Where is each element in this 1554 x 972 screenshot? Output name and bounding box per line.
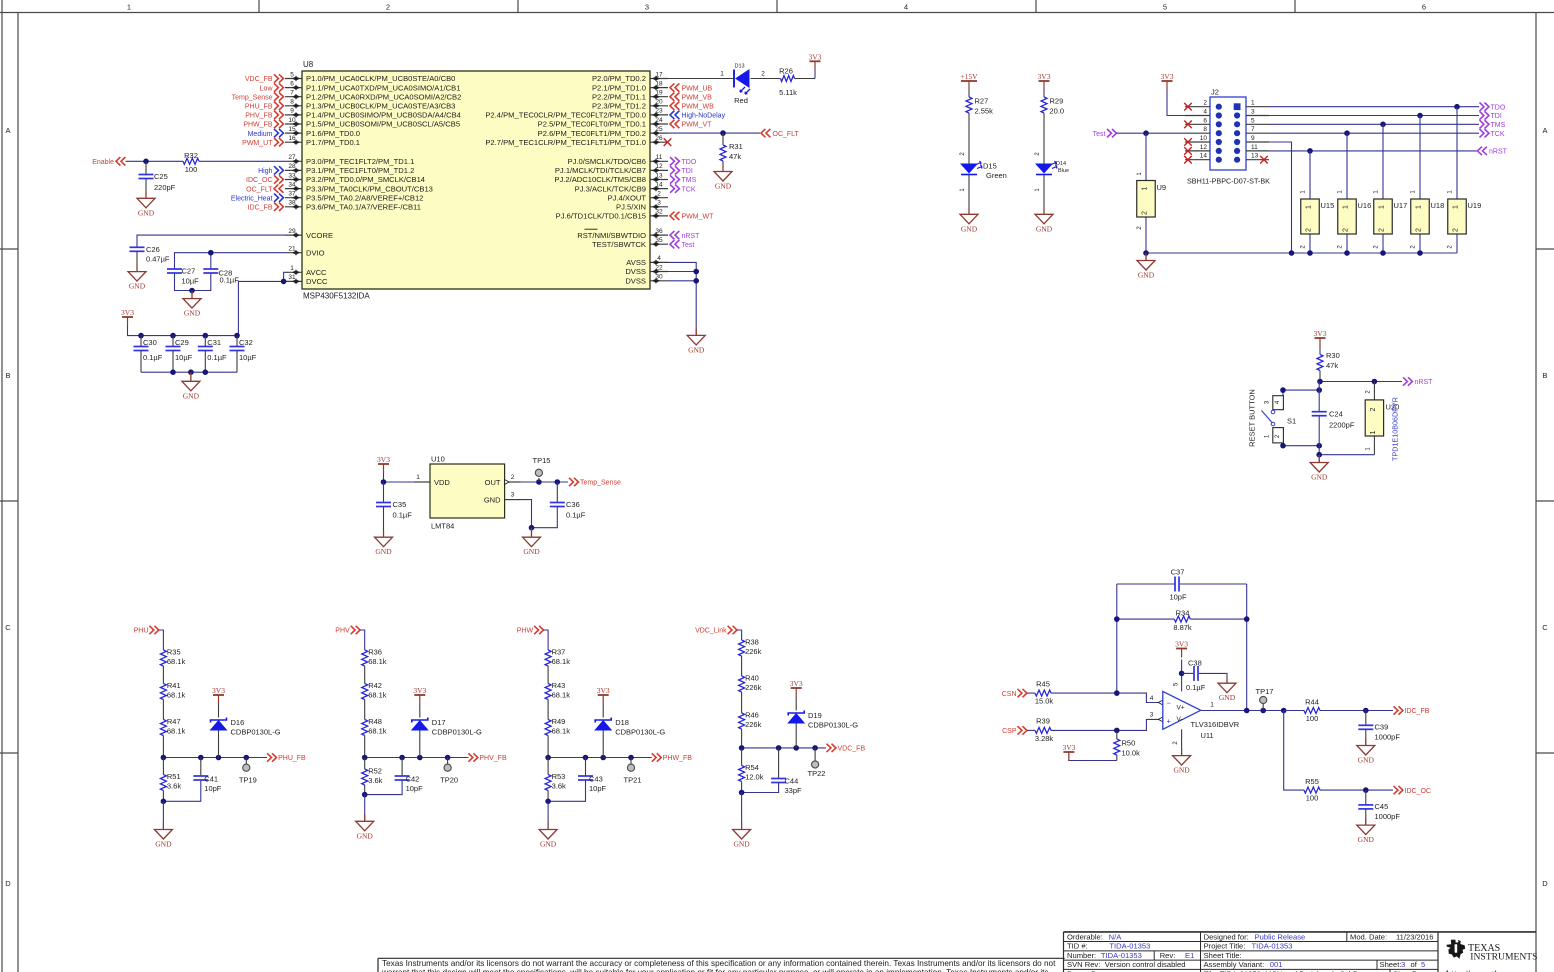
svg-text:10pF: 10pF [204, 784, 222, 793]
svg-text:PHU_FB: PHU_FB [245, 104, 273, 111]
svg-text:PHV_FB: PHV_FB [245, 113, 273, 120]
resistor R36 68.1k [362, 650, 368, 666]
svg-text:R46: R46 [745, 711, 759, 720]
resistor R52 3.6k [364, 758, 366, 770]
wire TMS from J2 pin5 [1269, 123, 1479, 125]
switch S1 lever [1271, 410, 1275, 414]
wire D14 to gnd [1043, 175, 1045, 214]
wire to ground PHV chain [364, 795, 366, 822]
svg-text:R40: R40 [745, 674, 759, 683]
svg-text:U9: U9 [1157, 183, 1167, 192]
wire bottom rail cap bank [141, 371, 237, 373]
svg-text:P1.2/PM_UCA0RXD/PM_UCA0SOMI/A2: P1.2/PM_UCA0RXD/PM_UCA0SOMI/A2/CB2 [306, 92, 461, 101]
svg-text:D19: D19 [808, 711, 822, 720]
wire R55 branch [1284, 711, 1304, 791]
svg-text:13: 13 [1251, 153, 1259, 160]
wire R26 to 3V3 [795, 78, 816, 80]
wire Test to J2 pin8 [1117, 132, 1186, 134]
sheet border frame [1, 0, 3, 972]
junction dots bottom rail [170, 369, 176, 375]
svg-text:1: 1 [1210, 702, 1214, 709]
svg-text:Temp_Sense: Temp_Sense [232, 94, 273, 101]
wire VDC_FB node [742, 747, 826, 749]
test point TP19 [245, 758, 247, 765]
pin 35 U8 TEST/SBWTCK with port Test [650, 243, 668, 245]
svg-text:C29: C29 [175, 338, 189, 347]
resistor R39 3.28k [1027, 729, 1035, 731]
svg-text:17: 17 [655, 71, 663, 78]
svg-text:U11: U11 [1201, 731, 1214, 740]
svg-text:CDBP0130L-G: CDBP0130L-G [808, 720, 858, 729]
ground below D14 [1043, 207, 1045, 214]
svg-text:E1: E1 [1185, 951, 1194, 960]
svg-text:68.1k: 68.1k [167, 690, 186, 699]
svg-text:TPD1E10B06DPYR: TPD1E10B06DPYR [1391, 397, 1400, 461]
svg-text:1: 1 [1416, 205, 1423, 209]
svg-text:OC_FLT: OC_FLT [773, 131, 800, 138]
wire VCORE to C26 [137, 235, 285, 247]
J2 pin 8 (left) [1185, 132, 1210, 134]
pin 20 U8 P2.3 [650, 105, 668, 107]
port IDC_FB [1394, 706, 1403, 714]
svg-text:GND: GND [184, 309, 201, 318]
wire pin25 OC_FLT [668, 132, 760, 134]
svg-text:GND: GND [183, 391, 200, 400]
port PHW_FB [652, 753, 661, 761]
svg-text:3: 3 [1401, 960, 1405, 969]
svg-text:2: 2 [1370, 407, 1377, 411]
svg-text:21: 21 [288, 246, 296, 253]
svg-text:U17: U17 [1394, 201, 1408, 210]
svg-text:Enable: Enable [92, 159, 114, 166]
svg-text:IDC_OC: IDC_OC [1405, 788, 1431, 795]
svg-text:GND: GND [1358, 756, 1375, 765]
svg-text:3V3: 3V3 [1314, 329, 1327, 338]
svg-text:001: 001 [1270, 960, 1283, 969]
svg-text:47k: 47k [729, 152, 741, 161]
resistor R27 2.55k [968, 90, 970, 97]
svg-text:GND: GND [357, 831, 374, 840]
svg-text:P1.7/PM_TD0.1: P1.7/PM_TD0.1 [306, 138, 360, 147]
svg-text:CDBP0130L-G: CDBP0130L-G [432, 727, 482, 736]
LED D13 Red [733, 70, 735, 88]
junction R31 tap [720, 130, 726, 136]
svg-text:C30: C30 [143, 338, 157, 347]
J2 pin 1 (right) [1246, 106, 1269, 108]
svg-text:TP19: TP19 [239, 775, 257, 784]
no-connect X on J2 pin 13 [1260, 156, 1268, 164]
svg-text:32: 32 [655, 209, 663, 216]
svg-text:D13: D13 [735, 64, 745, 70]
svg-text:R30: R30 [1326, 351, 1340, 360]
wire to ground PHW chain [547, 801, 549, 829]
svg-text:2: 2 [1203, 100, 1207, 107]
svg-text:10µF: 10µF [239, 353, 257, 362]
resistor R40 226k [739, 676, 745, 692]
capacitor C36 0.1uF [556, 482, 558, 503]
wire CSP to pin3 [1117, 719, 1163, 730]
wire TDI from J2 pin3 [1269, 115, 1479, 117]
svg-text:P1.3/PM_UCB0CLK/PM_UCA0STE/A3/: P1.3/PM_UCB0CLK/PM_UCA0STE/A3/CB3 [306, 102, 455, 111]
svg-text:Rev:: Rev: [1160, 951, 1176, 960]
jumper U19 on TDO [1456, 107, 1458, 199]
pin 19 U8 P2.2 [650, 96, 668, 98]
svg-text:D14: D14 [1056, 161, 1066, 167]
svg-text:100: 100 [1306, 794, 1319, 803]
svg-text:1: 1 [416, 474, 420, 481]
svg-text:P2.4/PM_TEC0CLR/PM_TEC0FLT2/PM: P2.4/PM_TEC0CLR/PM_TEC0FLT2/PM_TD0.0 [485, 111, 646, 120]
svg-text:14: 14 [655, 181, 663, 188]
wire DVCC rail down to cap bank [238, 281, 285, 335]
port TDI far right [1480, 111, 1489, 119]
wire DVIO to C27/C28 [175, 253, 286, 269]
ground below C45 [1365, 818, 1367, 825]
svg-text:P3.5/PM_TA0.2/A8/VEREF+/CB12: P3.5/PM_TA0.2/A8/VEREF+/CB12 [306, 193, 423, 202]
svg-text:1: 1 [720, 70, 724, 77]
svg-text:15: 15 [288, 126, 296, 133]
svg-text:D17: D17 [432, 718, 446, 727]
svg-text:38: 38 [288, 200, 296, 207]
svg-text:47k: 47k [1326, 361, 1338, 370]
pin 38 U8 P3.6 [285, 206, 302, 208]
svg-text:V-: V- [1177, 716, 1183, 723]
svg-text:V+: V+ [1177, 705, 1185, 712]
resistor R44 100 [1284, 710, 1304, 712]
ground below C35 [383, 530, 385, 537]
svg-text:10: 10 [1200, 135, 1208, 142]
svg-text:R49: R49 [552, 717, 566, 726]
svg-text:C25: C25 [154, 172, 168, 181]
svg-text:R53: R53 [552, 772, 566, 781]
pin 24 U8 P2.5 [650, 123, 668, 125]
svg-text:C31: C31 [207, 338, 221, 347]
svg-text:3V3: 3V3 [790, 679, 803, 688]
svg-text:3V3: 3V3 [597, 686, 610, 695]
svg-text:28: 28 [288, 163, 296, 170]
svg-text:2: 2 [1142, 211, 1149, 215]
svg-text:TMS: TMS [682, 177, 697, 184]
svg-text:C: C [5, 623, 11, 632]
svg-text:Blue: Blue [1058, 168, 1069, 174]
svg-text:68.1k: 68.1k [368, 726, 387, 735]
svg-text:P3.3/PM_TA0CLK/PM_CBOUT/CB13: P3.3/PM_TA0CLK/PM_CBOUT/CB13 [306, 184, 433, 193]
resistor R31 47k [722, 133, 724, 145]
svg-text:DVCC: DVCC [306, 277, 328, 286]
pin 9 U8 P1.4 with port PHV_FB [285, 114, 302, 116]
pin 28 U8 P3.1 [285, 169, 302, 171]
wire nRST node [1320, 381, 1402, 383]
svg-text:68.1k: 68.1k [167, 657, 186, 666]
svg-text:DVSS: DVSS [625, 267, 646, 276]
resistor R26 5.11k [781, 76, 795, 82]
svg-text:68.1k: 68.1k [552, 690, 571, 699]
svg-text:PHV: PHV [335, 628, 350, 635]
svg-text:Texas Instruments and/or its l: Texas Instruments and/or its licensors d… [382, 959, 1056, 968]
junction dots top rail [138, 333, 144, 339]
wire PHW_FB node [548, 757, 652, 759]
svg-text:nRST: nRST [682, 233, 701, 240]
svg-text:6: 6 [1422, 3, 1426, 12]
svg-text:TLV316IDBVR: TLV316IDBVR [1191, 720, 1240, 729]
wire TCK from J2 pin7 [1269, 132, 1479, 134]
svg-text:C24: C24 [1329, 410, 1343, 419]
svg-text:Mod. Date:: Mod. Date: [1350, 932, 1387, 941]
svg-text:PJ.2/ADC10CLK/TMS/CB8: PJ.2/ADC10CLK/TMS/CB8 [554, 175, 646, 184]
svg-text:S1: S1 [1287, 417, 1296, 426]
test point TP22 [814, 748, 816, 761]
svg-text:100: 100 [1306, 714, 1319, 723]
svg-text:10pF: 10pF [406, 784, 424, 793]
svg-text:0.1µF: 0.1µF [143, 353, 163, 362]
svg-text:PJ.6/TD1CLK/TD0.1/CB15: PJ.6/TD1CLK/TD0.1/CB15 [556, 212, 646, 221]
svg-text:Red: Red [734, 96, 748, 105]
svg-text:PHW: PHW [517, 628, 534, 635]
ground below U11 [1181, 749, 1183, 756]
svg-text:R52: R52 [368, 767, 382, 776]
pin 34 U8 P3.3 [285, 188, 302, 190]
svg-text:TDO: TDO [1491, 104, 1506, 111]
ground below U10 [531, 530, 533, 537]
svg-text:U16: U16 [1358, 201, 1372, 210]
wire to ground VDC chain [741, 793, 743, 830]
resistor R30 47k [1319, 347, 1321, 355]
svg-text:R27: R27 [975, 96, 989, 105]
svg-text:nRST: nRST [1415, 379, 1434, 386]
svg-text:PJ.3/ACLK/TCK/CB9: PJ.3/ACLK/TCK/CB9 [575, 184, 646, 193]
J2 pin 3 (right) [1246, 115, 1269, 117]
svg-text:TDI: TDI [682, 168, 693, 175]
svg-text:P3.0/PM_TEC1FLT2/PM_TD1.1: P3.0/PM_TEC1FLT2/PM_TD1.1 [306, 157, 414, 166]
svg-text:27: 27 [288, 154, 296, 161]
wire TDO from J2 pin1 [1269, 106, 1479, 108]
disclaimer box [378, 957, 1065, 959]
svg-text:Test: Test [682, 242, 695, 249]
svg-text:0.1µF: 0.1µF [393, 511, 413, 520]
svg-text:Temp_Sense: Temp_Sense [580, 480, 621, 487]
svg-text:AVSS: AVSS [626, 258, 646, 267]
capacitor C35 0.1uF [383, 482, 385, 503]
svg-text:PJ.5/XIN: PJ.5/XIN [616, 203, 646, 212]
svg-text:CSN: CSN [1002, 691, 1017, 698]
svg-text:10: 10 [288, 117, 296, 124]
switch S1 bottom contact box [1273, 428, 1284, 443]
svg-text:C38: C38 [1188, 659, 1202, 668]
svg-text:TEST/SBWTCK: TEST/SBWTCK [592, 240, 646, 249]
ground below C39 [1365, 739, 1367, 746]
svg-text:12: 12 [655, 163, 663, 170]
svg-text:3.6k: 3.6k [552, 782, 566, 791]
svg-text:68.1k: 68.1k [368, 657, 387, 666]
svg-text:34: 34 [288, 181, 296, 188]
pin 22 U8 DVSS [650, 271, 668, 273]
svg-text:R31: R31 [729, 142, 743, 151]
wire to ground PHU chain [162, 801, 164, 829]
svg-text:GND: GND [155, 840, 172, 849]
J2 pin 5 (right) [1246, 123, 1269, 125]
schottky diode D16 CDBP0130L-G [218, 731, 220, 758]
LED D15 Green [960, 164, 978, 174]
svg-text:R38: R38 [745, 638, 759, 647]
capacitor C37 10pF feedback [1117, 583, 1175, 585]
svg-text:High-NoDelay: High-NoDelay [682, 113, 726, 120]
pin 5 U8 P1.0 with port VDC_FB [285, 78, 302, 80]
svg-text:GND: GND [1173, 766, 1190, 775]
svg-text:19: 19 [655, 90, 663, 97]
svg-text:RESET BUTTON: RESET BUTTON [1248, 389, 1257, 447]
svg-text:PJ.4/XOUT: PJ.4/XOUT [608, 193, 647, 202]
capacitor C28 0.1uF [203, 268, 218, 270]
svg-text:IDC_FB: IDC_FB [1405, 708, 1430, 715]
svg-text:GND: GND [138, 208, 155, 217]
pin 2 U8 PJ.4 [650, 197, 668, 199]
resistor R37 68.1k [545, 650, 551, 666]
svg-text:2: 2 [761, 70, 765, 77]
J2 pin 7 (right) [1246, 132, 1269, 134]
svg-text:4: 4 [904, 3, 908, 12]
svg-text:P2.6/PM_TEC0FLT1/PM_TD0.2: P2.6/PM_TEC0FLT1/PM_TD0.2 [538, 129, 646, 138]
pin 10 U8 P1.5 with port PHW_FB [285, 123, 302, 125]
svg-text:3.6k: 3.6k [167, 782, 181, 791]
svg-text:N/A: N/A [1109, 932, 1123, 941]
svg-text:GND: GND [375, 547, 392, 556]
svg-text:C26: C26 [146, 245, 160, 254]
svg-text:68.1k: 68.1k [552, 726, 571, 735]
svg-text:8.87k: 8.87k [1173, 623, 1192, 632]
svg-text:+15V: +15V [960, 72, 978, 81]
pin 8 U8 P1.3 with port PHU_FB [285, 105, 302, 107]
wire feedback right column [1246, 584, 1248, 711]
svg-text:1: 1 [1379, 205, 1386, 209]
svg-text:3: 3 [657, 200, 661, 207]
svg-text:10.0k: 10.0k [1122, 749, 1141, 758]
junction Test/U9 [1143, 130, 1149, 136]
svg-text:8: 8 [1203, 126, 1207, 133]
svg-text:PWM_WB: PWM_WB [682, 104, 715, 111]
svg-text:TCK: TCK [1491, 131, 1505, 138]
svg-text:TP22: TP22 [808, 769, 826, 778]
svg-text:Version control disabled: Version control disabled [1105, 960, 1186, 969]
svg-text:DVSS: DVSS [625, 277, 646, 286]
wire 3V3 to J2 pin4 [1167, 90, 1185, 116]
no-connect X on J2 pin 10 [1184, 138, 1192, 146]
svg-text:68.1k: 68.1k [368, 690, 387, 699]
junction dots DVSS [693, 269, 699, 275]
svg-text:Sheet:: Sheet: [1380, 960, 1402, 969]
svg-text:+: + [1167, 717, 1172, 726]
svg-text:P3.2/PM_TD0.0/PM_SMCLK/CB14: P3.2/PM_TD0.0/PM_SMCLK/CB14 [306, 175, 425, 184]
resistor R45 15.0k [1027, 692, 1035, 694]
svg-text:U18: U18 [1431, 201, 1445, 210]
U10 pin 2 OUT [505, 481, 521, 483]
svg-text:5: 5 [1163, 3, 1167, 12]
svg-text:warrant that this design will: warrant that this design will meet the s… [381, 968, 1049, 972]
resistor R47 68.1k [160, 720, 166, 736]
svg-text:U10: U10 [431, 455, 445, 464]
svg-text:Sheet Title:: Sheet Title: [1204, 951, 1242, 960]
capacitor C29 10µF [172, 336, 174, 347]
capacitor C45 1000pF [1365, 790, 1367, 805]
svg-text:IDC_FB: IDC_FB [248, 205, 273, 212]
svg-text:D18: D18 [615, 718, 629, 727]
svg-text:1: 1 [290, 265, 294, 272]
no-connect X on J2 pin 6 [1184, 121, 1192, 129]
resistor R41 68.1k [160, 684, 166, 700]
svg-text:3V3: 3V3 [1161, 72, 1174, 81]
capacitor C24 2200pF [1318, 411, 1320, 413]
svg-text:226k: 226k [745, 683, 762, 692]
pin 6 U8 P1.1 with port Low [285, 87, 302, 89]
svg-text:P2.3/PM_TD1.2: P2.3/PM_TD1.2 [592, 102, 646, 111]
svg-text:3V3: 3V3 [809, 53, 822, 62]
svg-text:TCK: TCK [682, 186, 696, 193]
svg-text:20: 20 [655, 99, 663, 106]
svg-text:7: 7 [1251, 126, 1255, 133]
pin 26 U8 P2.7 [650, 141, 668, 143]
svg-text:2.55k: 2.55k [975, 106, 994, 115]
svg-text:3V3: 3V3 [1062, 743, 1075, 752]
svg-text:CDBP0130L-G: CDBP0130L-G [231, 727, 281, 736]
svg-text:2: 2 [1306, 228, 1313, 232]
svg-text:2: 2 [511, 474, 515, 481]
test point TP17 [1262, 704, 1264, 711]
svg-text:11/23/2016: 11/23/2016 [1396, 932, 1433, 941]
svg-text:of: of [1411, 960, 1418, 969]
svg-text:8: 8 [290, 99, 294, 106]
svg-text:R55: R55 [1305, 777, 1319, 786]
svg-text:Green: Green [986, 171, 1007, 180]
svg-text:PWM_VT: PWM_VT [682, 122, 713, 129]
test point TP15 [538, 478, 540, 482]
svg-text:VCORE: VCORE [306, 231, 333, 240]
svg-text:2: 2 [1343, 228, 1350, 232]
svg-text:Designed for:: Designed for: [1204, 932, 1249, 941]
svg-text:33pF: 33pF [785, 786, 803, 795]
svg-text:PWM_WT: PWM_WT [682, 214, 715, 221]
port TMS far right [1480, 120, 1489, 128]
svg-text:B: B [5, 371, 10, 380]
jumper U18 on TDI [1419, 116, 1421, 200]
svg-text:GND: GND [1219, 693, 1236, 702]
svg-text:10pF: 10pF [589, 784, 607, 793]
ground VDC chain [741, 823, 743, 830]
svg-text:R45: R45 [1036, 679, 1050, 688]
pin 11 U8 PJ.0 [650, 160, 668, 162]
resistor R50 10.0k [1116, 730, 1118, 739]
svg-text:3: 3 [645, 3, 649, 12]
svg-text:A: A [5, 126, 10, 135]
wire S1 bottom to gnd node [1283, 443, 1319, 446]
svg-text:14: 14 [1200, 153, 1208, 160]
svg-text:U8: U8 [303, 60, 314, 69]
svg-text:CDBP0130L-G: CDBP0130L-G [615, 727, 665, 736]
connector J2 SBH11-PBPC-D07-ST-BK body [1210, 97, 1246, 170]
svg-text:0.1µF: 0.1µF [1186, 683, 1206, 692]
ground at C38 [1226, 676, 1228, 683]
svg-text:5: 5 [1251, 117, 1255, 124]
svg-text:29: 29 [288, 228, 296, 235]
svg-text:C45: C45 [1375, 802, 1389, 811]
svg-text:20.0: 20.0 [1050, 106, 1065, 115]
svg-text:C27: C27 [182, 266, 196, 275]
pin 7 U8 P1.2 with port Temp_Sense [285, 96, 302, 98]
pin 31 U8 DVCC [285, 280, 302, 282]
svg-text:R36: R36 [368, 648, 382, 657]
wire CSN to pin4 [1117, 693, 1163, 702]
wire JTAG ground bus [1146, 252, 1457, 254]
svg-text:Electric_Heat: Electric_Heat [231, 195, 273, 202]
svg-text:Low: Low [260, 85, 274, 92]
ground below C25 [145, 191, 147, 198]
